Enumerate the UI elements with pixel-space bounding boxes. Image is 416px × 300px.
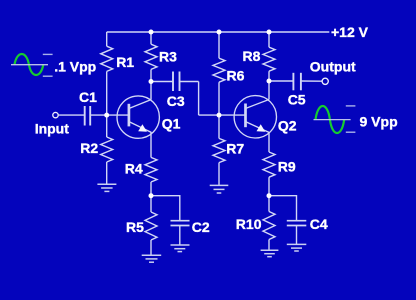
wire R7 to ground bbox=[218, 163, 220, 186]
wire Q2 collector up bbox=[268, 81, 270, 100]
wire C3 to corner bbox=[180, 81, 199, 83]
svg-text:Q1: Q1 bbox=[162, 115, 181, 131]
wire corner to node B bbox=[199, 114, 219, 116]
wire R9 to node bbox=[268, 177, 270, 196]
ground R5 bbox=[142, 255, 162, 262]
wire node to R5 bbox=[150, 196, 152, 212]
resistor R7 bbox=[213, 138, 225, 162]
wire rail to R6 top bbox=[218, 32, 220, 58]
resistor R9 bbox=[263, 152, 275, 177]
wire input to C1 bbox=[58, 114, 84, 116]
capacitor C2 bbox=[171, 221, 190, 226]
wire R3 bottom to collector node bbox=[150, 69, 152, 81]
svg-text:Q2: Q2 bbox=[278, 117, 297, 133]
wire R10 to ground bbox=[268, 240, 270, 251]
capacitor C5 bbox=[293, 73, 301, 91]
svg-text:C5: C5 bbox=[288, 91, 306, 107]
wire node to R10 bbox=[268, 196, 270, 212]
node R4/R5/C2 bbox=[149, 193, 154, 198]
node rail-R8 bbox=[267, 30, 272, 35]
node rail-R3 bbox=[149, 30, 154, 35]
capacitor C4 bbox=[287, 221, 307, 226]
svg-text:R5: R5 bbox=[126, 219, 144, 235]
ground R10 bbox=[261, 250, 279, 257]
capacitor C1 bbox=[85, 106, 91, 126]
wire rail to R1 top bbox=[106, 32, 108, 46]
svg-text:C4: C4 bbox=[310, 216, 328, 232]
wire R2 to ground bbox=[106, 162, 108, 184]
wire node A to Q1 base bbox=[107, 114, 129, 116]
svg-text:R2: R2 bbox=[80, 140, 98, 156]
node A bbox=[104, 113, 109, 118]
node rail-R6 bbox=[217, 30, 222, 35]
node Q2 collector / C5 bbox=[267, 79, 272, 84]
resistor R1 bbox=[101, 46, 113, 71]
svg-text:C3: C3 bbox=[167, 93, 185, 109]
source sine symbol left bbox=[11, 54, 53, 76]
svg-text:R10: R10 bbox=[236, 216, 262, 232]
node R9/R10/C4 bbox=[267, 193, 272, 198]
wire R6 bottom to node B bbox=[218, 82, 220, 115]
wire corner down bbox=[198, 82, 200, 116]
wire node B to Q2 base bbox=[219, 114, 246, 116]
wire R4 to emitter node bbox=[150, 182, 152, 196]
wire C1 to node A bbox=[90, 114, 107, 116]
svg-text:Output: Output bbox=[310, 59, 356, 75]
wire node to C2 branch bbox=[151, 196, 180, 221]
svg-text:9 Vpp: 9 Vpp bbox=[360, 113, 398, 129]
svg-text:C1: C1 bbox=[79, 89, 97, 105]
ground C2 bbox=[171, 245, 190, 252]
wire R5 to ground bbox=[150, 240, 152, 255]
svg-text:R3: R3 bbox=[159, 49, 177, 65]
wire node to C3 bbox=[151, 81, 173, 83]
ground R2 bbox=[97, 184, 116, 191]
wire node A to R2 bbox=[106, 115, 108, 137]
wire R8 bottom to C5 node bbox=[268, 71, 270, 81]
wire R1 bottom to node A bbox=[106, 71, 108, 115]
source sine symbol right bbox=[314, 106, 356, 133]
svg-text:R1: R1 bbox=[116, 54, 134, 70]
node B bbox=[217, 113, 222, 118]
wire +12V top rail bbox=[107, 31, 330, 33]
resistor R2 bbox=[101, 137, 113, 162]
Output terminal bbox=[322, 78, 328, 84]
wire C4 to ground bbox=[296, 226, 298, 245]
svg-text:R8: R8 bbox=[243, 48, 261, 64]
svg-text:R7: R7 bbox=[226, 140, 244, 156]
Input terminal bbox=[53, 112, 58, 117]
svg-text:R9: R9 bbox=[278, 159, 296, 175]
wire rail to R8 top bbox=[268, 32, 270, 47]
ground C4 bbox=[287, 244, 307, 251]
resistor R8 bbox=[263, 47, 275, 71]
wire node to C4 branch bbox=[269, 196, 297, 221]
wire rail to R3 top bbox=[150, 32, 152, 44]
resistor R10 bbox=[263, 212, 275, 240]
resistor R3 bbox=[145, 44, 157, 69]
ground R7 bbox=[210, 185, 229, 193]
wire Q2 emitter down bbox=[268, 132, 270, 152]
transistor Q2 bbox=[234, 96, 276, 138]
node Q1 collector / C3 bbox=[149, 79, 154, 84]
svg-text:+12 V: +12 V bbox=[331, 24, 369, 40]
transistor Q1 bbox=[117, 96, 159, 138]
wire C2 to ground bbox=[179, 226, 181, 246]
wire C5 to output terminal bbox=[301, 80, 322, 82]
svg-text:.1 Vpp: .1 Vpp bbox=[54, 58, 96, 74]
wire Q1 collector up bbox=[150, 82, 152, 100]
wire node to C5 bbox=[269, 80, 293, 82]
svg-text:R6: R6 bbox=[227, 67, 245, 83]
wire Q1 emitter down bbox=[150, 132, 152, 158]
capacitor C3 bbox=[173, 72, 180, 92]
svg-text:R4: R4 bbox=[125, 160, 143, 176]
wire node B to R7 bbox=[218, 115, 220, 138]
svg-text:C2: C2 bbox=[192, 219, 210, 235]
resistor R6 bbox=[213, 58, 225, 82]
resistor R5 bbox=[145, 212, 157, 240]
resistor R4 bbox=[145, 157, 157, 182]
svg-text:Input: Input bbox=[35, 120, 70, 136]
